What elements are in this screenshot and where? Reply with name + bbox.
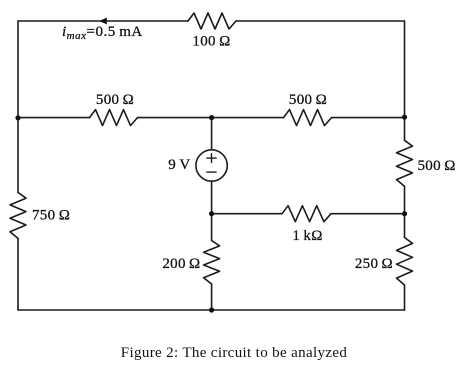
- resistor 750 ohm left: [10, 192, 26, 238]
- current arrow imax: [99, 18, 107, 25]
- junction node row2-source: [209, 115, 214, 120]
- svg-text:500 Ω: 500 Ω: [96, 92, 134, 108]
- junction node row2-left: [15, 115, 20, 120]
- svg-text:500 Ω: 500 Ω: [418, 158, 456, 174]
- wire top-right segment: [236, 20, 405, 22]
- resistor 1 kohm row3: [282, 206, 331, 222]
- svg-text:Figure 2: The circuit to be an: Figure 2: The circuit to be analyzed: [121, 345, 348, 361]
- wire source branch lower: [211, 181, 213, 240]
- wire source branch bottom: [211, 284, 213, 310]
- wire left vertical lower: [17, 238, 19, 310]
- svg-text:100 Ω: 100 Ω: [192, 34, 230, 50]
- wire row2 left: [18, 117, 90, 119]
- svg-text:750 Ω: 750 Ω: [32, 208, 70, 224]
- wire left vertical upper: [17, 21, 19, 192]
- wire bottom: [18, 309, 405, 311]
- wire source branch upper: [211, 118, 213, 150]
- wire row3 left: [212, 213, 282, 215]
- wire top-left segment: [18, 20, 188, 22]
- wire right vertical lower: [404, 285, 406, 310]
- junction node row3-right: [402, 211, 407, 216]
- resistor 500 ohm row2 right: [284, 110, 332, 126]
- voltage source plus sign: [207, 154, 216, 163]
- svg-text:200 Ω: 200 Ω: [162, 256, 200, 272]
- wire row2 middle: [138, 117, 284, 119]
- resistor 100 ohm top: [188, 13, 236, 29]
- resistor 500 ohm right vertical: [397, 140, 413, 186]
- wire row2 right: [332, 117, 405, 119]
- svg-text:9 V: 9 V: [168, 157, 190, 173]
- junction node bottom: [209, 307, 214, 312]
- svg-text:1 kΩ: 1 kΩ: [292, 228, 322, 244]
- voltage source V1 circle: [196, 150, 227, 181]
- voltage source minus sign: [207, 171, 216, 173]
- wire row3 right: [331, 213, 405, 215]
- resistor 200 ohm: [204, 241, 220, 285]
- resistor 250 ohm: [397, 238, 413, 286]
- resistor 500 ohm row2 left: [90, 110, 138, 126]
- junction node row2-right: [402, 115, 407, 120]
- wire right vertical middle: [404, 186, 406, 237]
- svg-text:250 Ω: 250 Ω: [355, 256, 393, 272]
- svg-text:imax=0.5 mA: imax=0.5 mA: [62, 24, 143, 42]
- svg-text:500 Ω: 500 Ω: [289, 92, 327, 108]
- wire right vertical upper: [404, 21, 406, 140]
- junction node row3-source: [209, 211, 214, 216]
